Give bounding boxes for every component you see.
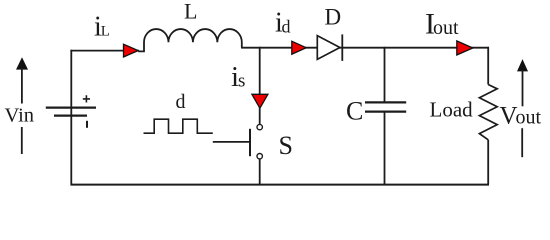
wire right vertical upper	[487, 47, 489, 85]
arrow Iout (red current arrow)	[457, 41, 473, 55]
capacitor C plates	[365, 101, 406, 103]
wire switch to bottom rail	[259, 159, 261, 185]
wire left vertical	[70, 50, 72, 184]
arrow is (red current arrow down)	[252, 94, 268, 108]
svg-text:s: s	[238, 70, 245, 91]
wire between arrow and switch	[259, 107, 261, 124]
source Vin battery bottom plate	[54, 114, 87, 116]
arrow iL (red current arrow)	[124, 44, 139, 57]
waveform d (gate duty pulse)	[144, 119, 213, 133]
capacitor C branch wire lower	[384, 113, 386, 185]
switch S top terminal circle	[257, 124, 262, 129]
battery minus mark	[86, 121, 88, 128]
svg-text:d: d	[176, 91, 186, 113]
battery plus sign	[83, 95, 90, 102]
svg-text:L: L	[184, 0, 197, 24]
svg-text:Load: Load	[430, 98, 474, 122]
wire top-left horizontal	[70, 50, 139, 52]
svg-text:d: d	[282, 16, 291, 36]
resistor Load	[479, 85, 497, 140]
svg-text:Vin: Vin	[5, 105, 35, 127]
wire right vertical lower	[487, 140, 489, 185]
wire top-right horizontal	[241, 47, 489, 49]
source Vin battery top plate	[46, 106, 96, 108]
switch S gate lead wire	[213, 141, 249, 143]
wire bottom rail	[70, 184, 489, 186]
arrow Vin (black voltage arrow)	[16, 57, 28, 69]
svg-text:C: C	[346, 97, 363, 126]
svg-text:L: L	[101, 24, 110, 40]
switch S gate bar	[249, 129, 251, 156]
svg-text:S: S	[279, 131, 293, 160]
wire switch branch upper	[259, 47, 261, 95]
inductor L	[138, 29, 242, 51]
arrow id (red current arrow)	[292, 41, 306, 54]
svg-text:D: D	[325, 5, 342, 30]
switch S bottom terminal circle	[257, 154, 262, 159]
arrow Vout (black voltage arrow)	[517, 59, 528, 71]
capacitor C branch wire upper	[384, 47, 386, 102]
svg-text:out: out	[516, 107, 542, 129]
diode D	[317, 36, 340, 60]
svg-text:out: out	[433, 17, 459, 39]
